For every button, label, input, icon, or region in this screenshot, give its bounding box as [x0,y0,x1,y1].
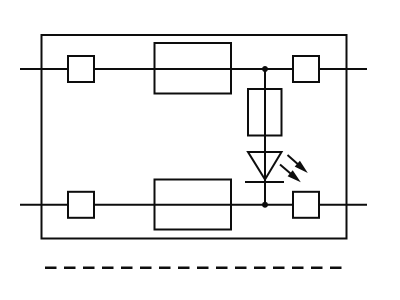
enclosure outline of terminal block [42,35,347,239]
resistor (series resistor in LED branch) [248,89,282,136]
node: junction dot on top conductor [262,66,268,72]
wire: top conductor (left lead through to right lead) [20,68,367,70]
dashed marker line (mounting rail) [45,267,342,270]
function block (bottom busbar box) [155,180,232,230]
wire: vertical branch between conductors [264,69,266,205]
function block (top busbar box) [155,43,232,94]
node: junction dot on bottom conductor [262,202,268,208]
wire: bottom conductor (left lead through to right lead) [20,204,367,206]
LED light emission arrow (lower) [280,165,301,183]
LED cathode bar [245,181,284,183]
terminal clamp (top right) [293,56,319,82]
LED (diode triangle, anode top) [248,152,282,180]
terminal clamp (top left) [68,56,94,82]
terminal clamp (bottom right) [293,192,319,218]
LED light emission arrow (upper) [288,155,308,173]
terminal clamp (bottom left) [68,192,94,218]
